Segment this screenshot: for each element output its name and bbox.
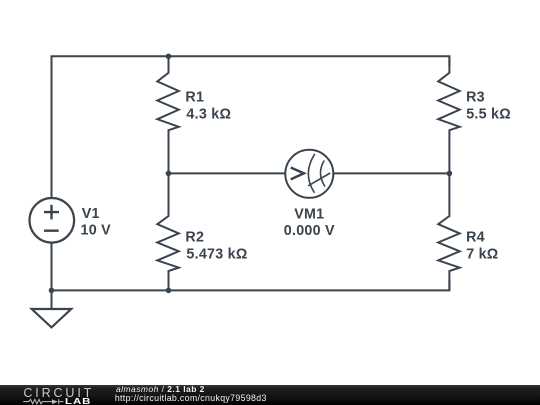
- svg-text:R4: R4: [466, 230, 485, 246]
- svg-text:V1: V1: [82, 206, 100, 222]
- svg-text:R1: R1: [185, 90, 204, 106]
- svg-text:5.5 kΩ: 5.5 kΩ: [466, 107, 511, 123]
- svg-text:7 kΩ: 7 kΩ: [466, 247, 498, 263]
- svg-text:R3: R3: [466, 90, 485, 106]
- svg-text:5.473 kΩ: 5.473 kΩ: [186, 247, 247, 263]
- svg-text:LAB: LAB: [65, 396, 91, 405]
- svg-text:10 V: 10 V: [81, 223, 112, 239]
- svg-text:0.000 V: 0.000 V: [284, 223, 335, 239]
- svg-text:VM1: VM1: [294, 206, 324, 222]
- svg-text:4.3 kΩ: 4.3 kΩ: [186, 107, 231, 123]
- svg-text:R2: R2: [185, 230, 204, 246]
